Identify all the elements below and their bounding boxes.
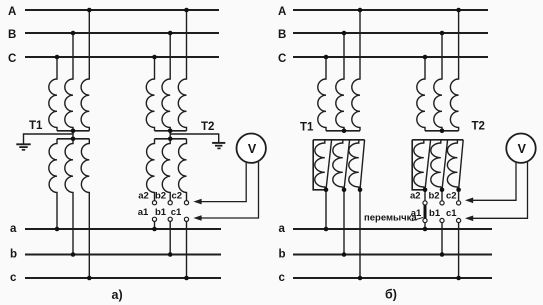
primary winding T2-left phase A bbox=[178, 10, 186, 131]
wire terminal b1 to bus b (right) bbox=[441, 223, 443, 255]
T1-right delta top bar bbox=[313, 139, 364, 141]
probe arrow to c2 (left) bbox=[193, 199, 201, 205]
T2-left primary star bar bbox=[155, 130, 187, 132]
svg-text:b: b bbox=[279, 249, 286, 261]
T1-right delta diagonal 3 bbox=[360, 140, 365, 190]
svg-text:c2: c2 bbox=[446, 190, 457, 201]
T2-right delta diagonal 3 bbox=[459, 140, 464, 190]
bus B (right system) bbox=[293, 32, 488, 34]
lead T1-right a to bus bbox=[325, 190, 327, 229]
junction T2-right primary neutral bbox=[440, 129, 445, 134]
secondary delta winding T2-right phase b bbox=[431, 140, 442, 190]
voltmeter V1 (left) bbox=[237, 134, 266, 163]
primary winding T2-left phase B bbox=[162, 33, 170, 131]
wire terminal c1 to bus c (left) bbox=[186, 221, 188, 278]
primary winding T1-right phase B bbox=[336, 33, 344, 131]
primary winding T1-left phase C bbox=[49, 57, 57, 131]
junction T1-right c lead bbox=[358, 276, 363, 281]
bus b (right system) bbox=[293, 254, 492, 256]
junction T2-left C tap bbox=[152, 55, 157, 60]
wire terminal b1 to bus b (left) bbox=[169, 221, 171, 254]
junction T2-right delta node a bbox=[423, 188, 428, 193]
svg-text:A: A bbox=[8, 6, 16, 18]
lead T1-right b to bus bbox=[343, 190, 345, 255]
junction T1-right delta node a bbox=[324, 188, 329, 193]
svg-text:a2: a2 bbox=[410, 190, 421, 201]
terminal c2 (left) bbox=[184, 201, 188, 205]
voltmeter V1 lead to c2 bbox=[196, 162, 246, 202]
wire T2-right delta node to terminal b2 bbox=[441, 190, 443, 201]
svg-text:V: V bbox=[248, 142, 257, 156]
svg-text:B: B bbox=[8, 29, 16, 41]
junction T2-right b lead bbox=[440, 252, 445, 257]
primary winding T1-left phase A bbox=[81, 10, 89, 131]
junction T2-right A tap bbox=[456, 8, 461, 13]
terminal a1 (right) bbox=[423, 218, 427, 222]
junction T2-right c lead bbox=[456, 276, 461, 281]
junction T1-left C tap bbox=[55, 55, 60, 60]
bus a (left system) bbox=[25, 228, 221, 230]
wire T2-right delta node to terminal c2 bbox=[458, 190, 460, 201]
junction T1-left primary neutral bbox=[71, 129, 76, 134]
secondary winding T1-left phase a bbox=[49, 139, 57, 229]
svg-text:b2: b2 bbox=[428, 190, 439, 201]
T1-right delta diagonal 1 bbox=[326, 140, 332, 190]
junction T2-right delta node c bbox=[456, 188, 461, 193]
svg-text:b2: b2 bbox=[155, 190, 166, 201]
T2-right delta top bar bbox=[412, 139, 463, 141]
T2-left neutral link bbox=[169, 131, 171, 139]
svg-text:c1: c1 bbox=[446, 208, 457, 219]
svg-text:b1: b1 bbox=[155, 207, 167, 218]
T2-right delta left edge bbox=[412, 140, 425, 190]
ground T1-left bbox=[16, 144, 30, 150]
svg-text:перемычка: перемычка bbox=[364, 213, 417, 224]
terminal b2 (left) bbox=[168, 201, 172, 205]
junction T2-right a lead bbox=[423, 227, 428, 232]
voltmeter V2 (right) bbox=[506, 134, 535, 163]
junction T2-left primary neutral bbox=[168, 129, 173, 134]
T1-left ground lead bbox=[24, 134, 74, 144]
T2-right delta diagonal 2 bbox=[442, 140, 448, 190]
junction T1-right B tap bbox=[342, 31, 347, 36]
ground T2-left bbox=[212, 143, 225, 149]
T1-left primary star bar bbox=[57, 130, 89, 132]
svg-text:T2: T2 bbox=[201, 121, 214, 133]
bus A (right system) bbox=[293, 9, 488, 11]
svg-text:T2: T2 bbox=[472, 121, 485, 133]
primary winding T2-left phase C bbox=[146, 57, 154, 131]
junction T1-left a lead bbox=[55, 227, 60, 232]
bus A (left system) bbox=[25, 9, 219, 11]
junction T1-right C tap bbox=[324, 55, 329, 60]
secondary winding T1-left phase b bbox=[65, 139, 73, 255]
svg-text:b: b bbox=[10, 249, 17, 261]
primary winding T1-left phase B bbox=[65, 33, 73, 131]
bus c (left system) bbox=[25, 277, 221, 279]
svg-text:a: a bbox=[279, 223, 286, 235]
junction T2-left secondary neutral bbox=[168, 137, 173, 142]
secondary winding T2-left phase b bbox=[162, 139, 170, 201]
primary winding T1-right phase C bbox=[318, 57, 326, 131]
secondary delta winding T2-right phase c bbox=[447, 140, 458, 190]
voltmeter V1 lead to c1 bbox=[196, 162, 259, 218]
terminal a2 (right) bbox=[423, 201, 427, 205]
svg-text:a2: a2 bbox=[138, 190, 149, 201]
voltmeter V2 lead to c1 bbox=[468, 162, 528, 218]
svg-text:T1: T1 bbox=[29, 120, 43, 132]
junction T2-right delta node b bbox=[440, 188, 445, 193]
svg-text:c2: c2 bbox=[172, 190, 183, 201]
junction T2-left b lead bbox=[168, 252, 173, 257]
wire terminal a1 to bus a (right) bbox=[424, 223, 426, 229]
secondary delta winding T1-right phase b bbox=[333, 140, 344, 190]
secondary delta winding T2-right phase a bbox=[414, 140, 425, 190]
terminal c2 (right) bbox=[457, 201, 461, 205]
probe arrow to c2 (right) bbox=[465, 198, 473, 204]
T2-left ground lead bbox=[170, 134, 219, 142]
T2-right primary star bar bbox=[425, 130, 459, 132]
terminal c1 (right) bbox=[457, 218, 461, 222]
bus a (right system) bbox=[293, 228, 492, 230]
terminal a1 (left) bbox=[152, 217, 156, 221]
svg-text:V: V bbox=[518, 142, 527, 156]
bus b (left system) bbox=[25, 254, 221, 256]
probe arrow to c1 (right) bbox=[465, 216, 473, 222]
svg-text:c: c bbox=[10, 272, 17, 284]
wire terminal a1 to bus a (left) bbox=[154, 221, 156, 229]
terminal c1 (left) bbox=[184, 217, 188, 221]
probe arrow to c1 (left) bbox=[193, 215, 201, 221]
secondary delta winding T1-right phase c bbox=[349, 140, 360, 190]
T1-left secondary star bar bbox=[57, 138, 89, 140]
terminal a2 (left) bbox=[152, 201, 156, 205]
jumper (peremychka) a2-a1 bbox=[424, 204, 427, 219]
wire T2-right delta node to terminal a2 bbox=[424, 190, 426, 201]
T1-right primary star bar bbox=[326, 130, 360, 132]
junction T1-left B tap bbox=[71, 31, 76, 36]
junction T1-right delta node b bbox=[342, 188, 347, 193]
primary winding T2-right phase A bbox=[450, 10, 458, 131]
terminal b1 (right) bbox=[440, 218, 444, 222]
junction T1-right primary neutral bbox=[342, 129, 347, 134]
T2-right delta diagonal 1 bbox=[425, 140, 431, 190]
junction T2-left A tap bbox=[184, 8, 189, 13]
terminal b2 (right) bbox=[440, 201, 444, 205]
T1-right delta left edge bbox=[313, 140, 326, 190]
svg-text:C: C bbox=[8, 53, 16, 65]
bus c (right system) bbox=[293, 277, 492, 279]
secondary winding T1-left phase c bbox=[81, 139, 89, 278]
junction T2-left a lead bbox=[152, 227, 157, 232]
lead T1-right c to bus bbox=[359, 190, 361, 278]
svg-text:a1: a1 bbox=[138, 207, 149, 218]
secondary delta winding T1-right phase a bbox=[315, 140, 326, 190]
secondary winding T2-left phase c bbox=[178, 139, 186, 201]
junction T2-left B tap bbox=[168, 31, 173, 36]
junction T1-right A tap bbox=[358, 8, 363, 13]
peremychka callout line bbox=[412, 218, 424, 221]
primary winding T2-right phase C bbox=[417, 57, 425, 131]
svg-text:C: C bbox=[278, 53, 286, 65]
junction T1-left b lead bbox=[71, 252, 76, 257]
svg-text:A: A bbox=[278, 6, 286, 18]
svg-text:c1: c1 bbox=[171, 207, 182, 218]
svg-text:b1: b1 bbox=[429, 208, 441, 219]
bus C (right system) bbox=[293, 56, 488, 58]
svg-text:B: B bbox=[278, 29, 286, 41]
T1-left neutral link bbox=[72, 131, 74, 139]
junction T2-left c lead bbox=[184, 276, 189, 281]
primary winding T1-right phase A bbox=[352, 10, 360, 131]
svg-text:а): а) bbox=[112, 288, 123, 302]
terminal b1 (left) bbox=[168, 217, 172, 221]
junction T1-right delta node c bbox=[358, 188, 363, 193]
svg-text:T1: T1 bbox=[300, 122, 314, 134]
junction T1-left secondary neutral bbox=[71, 137, 76, 142]
svg-text:a: a bbox=[10, 223, 17, 235]
svg-text:б): б) bbox=[385, 288, 397, 302]
svg-text:c: c bbox=[279, 272, 286, 284]
primary winding T2-right phase B bbox=[434, 33, 442, 131]
T1-right delta diagonal 2 bbox=[344, 140, 350, 190]
voltmeter V2 lead to c2 bbox=[468, 162, 517, 200]
junction T1-left c lead bbox=[87, 276, 92, 281]
junction T2-right B tap bbox=[440, 31, 445, 36]
secondary winding T2-left phase a bbox=[146, 139, 154, 201]
bus C (left system) bbox=[25, 56, 219, 58]
bus B (left system) bbox=[25, 32, 219, 34]
junction T2-right C tap bbox=[423, 55, 428, 60]
T2-left secondary star bar bbox=[155, 138, 187, 140]
junction T1-right b lead bbox=[342, 252, 347, 257]
junction T1-right a lead bbox=[324, 227, 329, 232]
junction T1-left A tap bbox=[87, 8, 92, 13]
wire terminal c1 to bus c (right) bbox=[458, 223, 460, 278]
